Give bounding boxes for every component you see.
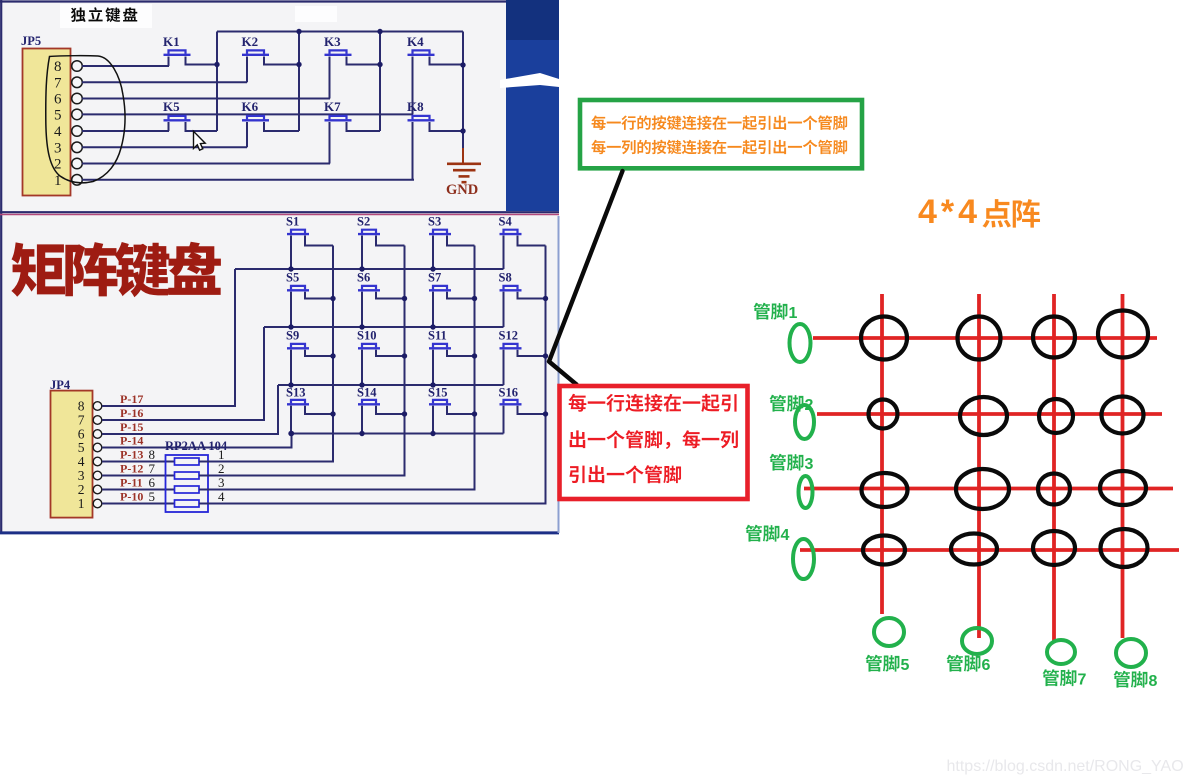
label 管脚8 <box>1114 671 1148 688</box>
LED dot row 2 col 4 <box>1102 397 1144 434</box>
svg-text:K6: K6 <box>242 99 259 114</box>
key K1 left leg wire <box>168 57 170 67</box>
svg-text:3: 3 <box>218 475 225 490</box>
vertical bus wire column 1 <box>216 32 218 132</box>
svg-text:1: 1 <box>78 496 85 511</box>
RP2AA resistor element 4 <box>175 500 200 507</box>
key S4 right leg wire <box>518 236 546 246</box>
separator line crimson between panels <box>0 214 559 216</box>
column bus wire 3 <box>474 246 476 490</box>
junction dot column 3 row 2 <box>472 296 477 301</box>
key K4 right leg wire <box>430 57 464 65</box>
key S16 left leg wire <box>503 406 505 434</box>
svg-text:P-17: P-17 <box>120 392 143 406</box>
red box text line 3 <box>569 465 681 483</box>
red box text line 1 <box>569 394 737 412</box>
svg-text:7: 7 <box>54 75 62 91</box>
wire P-15 <box>102 385 278 434</box>
LED dot row 3 col 1 <box>862 473 908 507</box>
schematic slide background top panel <box>0 0 559 216</box>
label 管脚6 <box>947 655 981 672</box>
svg-text:S5: S5 <box>286 271 299 285</box>
svg-text:6: 6 <box>982 657 991 674</box>
svg-text:P-12: P-12 <box>120 462 143 476</box>
LED dot row 2 col 2 <box>960 397 1007 435</box>
svg-text:8: 8 <box>1149 673 1158 690</box>
svg-text:5: 5 <box>78 440 85 455</box>
red annotation box <box>560 386 748 499</box>
junction dot column 1 row 3 <box>330 353 335 358</box>
key S14 right leg wire <box>376 406 405 414</box>
key S15 left leg wire <box>432 406 434 434</box>
LED dot row 1 col 3 <box>1033 317 1075 358</box>
column bus wire 4 <box>545 246 547 504</box>
LED dot row 4 col 2 <box>951 534 997 565</box>
pin ellipse 管脚1 <box>790 324 811 362</box>
svg-text:P-14: P-14 <box>120 434 143 448</box>
svg-text:S10: S10 <box>357 329 376 343</box>
pin circle 管脚8 <box>1116 639 1146 667</box>
LED dot row 1 col 4 <box>1098 311 1148 358</box>
svg-text:GND: GND <box>446 182 478 198</box>
svg-text:1: 1 <box>54 173 62 189</box>
svg-text:6: 6 <box>54 92 62 108</box>
wire P-17 <box>102 269 235 406</box>
matrix panel right border <box>558 216 560 533</box>
junction dot row bus 4 col 2 <box>359 431 364 436</box>
wire JP5 pin 8 row <box>82 65 169 67</box>
junction dot row bus 4 col 1 <box>288 431 293 436</box>
svg-text:S12: S12 <box>499 329 518 343</box>
RP2AA resistor element 3 <box>175 486 200 493</box>
JP5 pin 1 circle <box>72 175 83 186</box>
LED dot row 4 col 4 <box>1101 529 1148 567</box>
key S4 left leg wire <box>503 236 505 270</box>
junction dot column 4 row 4 <box>543 411 548 416</box>
junction dots row1 <box>214 62 219 67</box>
svg-text:4: 4 <box>54 124 62 140</box>
label 管脚1 <box>754 303 788 320</box>
svg-text:K7: K7 <box>324 99 341 114</box>
svg-text:6: 6 <box>149 475 156 490</box>
JP5 pin 8 circle <box>72 61 83 72</box>
svg-text:K1: K1 <box>163 34 180 49</box>
LED dot row 3 col 2 <box>956 469 1009 509</box>
panel left border <box>0 0 2 534</box>
LED dot row 4 col 3 <box>1033 531 1075 565</box>
key S7 left leg wire <box>432 292 434 327</box>
key S5 right leg wire <box>305 292 333 299</box>
title 独立键盘 <box>71 7 137 22</box>
svg-text:5: 5 <box>54 107 62 123</box>
svg-text:4: 4 <box>218 489 225 504</box>
key S1 left leg wire <box>290 236 292 270</box>
grid horizontal line 3 <box>804 487 1173 491</box>
column bus wire 1 <box>332 246 334 462</box>
row bus wire 4 <box>292 433 504 435</box>
white erase streak on blue block <box>500 73 559 88</box>
grid vertical line 1 <box>880 294 884 614</box>
svg-text:4: 4 <box>78 454 85 469</box>
grid vertical line 4 <box>1121 294 1125 638</box>
key K2 right leg wire <box>264 57 299 65</box>
vertical bus wire column 2 <box>298 32 300 132</box>
key S11 left leg wire <box>432 350 434 385</box>
junction dot row bus 2 col 1 <box>288 324 293 329</box>
key S9 right leg wire <box>305 350 333 356</box>
key K7 left leg wire <box>329 122 331 164</box>
junction dot row bus 4 col 3 <box>430 431 435 436</box>
svg-text:P-15: P-15 <box>120 420 143 434</box>
svg-text:K5: K5 <box>163 99 180 114</box>
wire P-16 <box>102 327 264 420</box>
JP5 pin 5 circle <box>72 109 83 120</box>
key S9 left leg wire <box>290 350 292 385</box>
wire P-13 to resistor pack <box>102 461 175 463</box>
key K3 right leg wire <box>347 57 381 65</box>
wire RP2AA pin 3 to column 3 <box>199 246 475 490</box>
key S15 right leg wire <box>447 406 475 414</box>
junction dot column 3 row 3 <box>472 353 477 358</box>
row bus wire 1 <box>235 268 504 270</box>
key K4 left leg wire <box>412 57 414 115</box>
key S3 right leg wire <box>447 236 475 246</box>
LED dot row 2 col 1 <box>869 400 898 429</box>
svg-text:S1: S1 <box>286 215 299 229</box>
svg-text:K2: K2 <box>242 34 259 49</box>
junction dot row bus 2 col 3 <box>430 324 435 329</box>
junction dot column 1 row 2 <box>330 296 335 301</box>
JP5 pin 7 circle <box>72 77 83 88</box>
JP4 pin 3 circle <box>93 471 102 480</box>
svg-text:P-10: P-10 <box>120 490 143 504</box>
wire P-14 <box>102 434 292 448</box>
key S6 left leg wire <box>361 292 363 327</box>
wire JP5 pin 2 row <box>82 163 330 165</box>
row bus wire 2 <box>264 326 504 328</box>
JP4 pin 2 circle <box>93 485 102 494</box>
wire P-12 to resistor pack <box>102 475 175 477</box>
wire JP5 pin 3 row <box>82 146 247 148</box>
row bus wire 3 <box>278 384 504 386</box>
key K2 left leg wire <box>246 57 248 83</box>
svg-text:8: 8 <box>78 399 85 414</box>
key K8 right leg wire <box>430 122 464 131</box>
key S8 right leg wire <box>518 292 546 299</box>
pin ellipse 管脚4 <box>793 539 814 579</box>
label 管脚7 <box>1043 669 1077 686</box>
junction dot row bus 1 col 3 <box>430 266 435 271</box>
JP5 pin 4 circle <box>72 126 83 137</box>
key K6 left leg wire <box>246 122 248 147</box>
JP4 pin 7 circle <box>93 416 102 425</box>
svg-text:S6: S6 <box>357 271 370 285</box>
svg-text:4: 4 <box>781 527 790 544</box>
key S3 left leg wire <box>432 236 434 270</box>
svg-text:P-16: P-16 <box>120 406 143 420</box>
key S1 right leg wire <box>305 236 333 246</box>
JP4 pin 4 circle <box>93 457 102 466</box>
key S14 left leg wire <box>361 406 363 434</box>
svg-text:K8: K8 <box>407 99 424 114</box>
connector JP5 body <box>23 49 71 196</box>
junction dot row bus 2 col 2 <box>359 324 364 329</box>
JP5 pin 2 circle <box>72 158 83 169</box>
JP4 pin 5 circle <box>93 443 102 452</box>
label 管脚5 <box>866 655 900 672</box>
top bus wire to GND column <box>217 31 463 33</box>
label 管脚3 <box>770 454 804 471</box>
key S11 right leg wire <box>447 350 475 356</box>
key S5 left leg wire <box>290 292 292 327</box>
svg-text:4*4: 4*4 <box>918 193 981 231</box>
wire P-11 to resistor pack <box>102 489 175 491</box>
pin ellipse 管脚2 <box>795 405 814 439</box>
white highlight blobs behind title <box>60 4 152 28</box>
wire P-10 to resistor pack <box>102 503 175 505</box>
svg-text:3: 3 <box>805 456 814 473</box>
junction dot column 4 row 2 <box>543 296 548 301</box>
column bus wire 2 <box>404 246 406 476</box>
key S12 left leg wire <box>503 350 505 385</box>
wire JP5 pin 7 row <box>82 81 247 83</box>
junction dot row bus 1 col 2 <box>359 266 364 271</box>
grid horizontal line 1 <box>813 336 1157 340</box>
svg-text:2: 2 <box>218 461 225 476</box>
key S8 left leg wire <box>503 292 505 327</box>
svg-text:2: 2 <box>805 397 814 414</box>
wire RP2AA pin 2 to column 2 <box>199 246 405 476</box>
dark blue video corner block <box>506 0 559 211</box>
pin circle 管脚5 <box>874 618 904 646</box>
wire JP5 pin 6 row <box>82 98 330 100</box>
RP2AA resistor element 1 <box>175 458 200 465</box>
green box text line 2 <box>591 140 847 155</box>
svg-text:7: 7 <box>149 461 156 476</box>
svg-text:2: 2 <box>78 482 85 497</box>
wire JP5 pin 5 row <box>82 113 413 115</box>
wire JP5 pin 4 row <box>82 130 169 132</box>
svg-text:3: 3 <box>78 468 85 483</box>
svg-text:S8: S8 <box>499 271 512 285</box>
svg-text:P-13: P-13 <box>120 448 143 462</box>
LED dot row 1 col 2 <box>958 317 1001 360</box>
svg-text:S14: S14 <box>357 386 377 400</box>
key K8 left leg wire <box>412 122 414 180</box>
JP4 pin 8 circle <box>93 402 102 411</box>
svg-text:5: 5 <box>901 657 910 674</box>
key K5 left leg wire <box>168 122 170 131</box>
LED dot row 4 col 1 <box>863 536 905 565</box>
JP4 pin 6 circle <box>93 430 102 439</box>
pin circle 管脚6 <box>962 628 992 654</box>
junction dot row bus 3 col 1 <box>288 382 293 387</box>
svg-text:8: 8 <box>149 447 156 462</box>
svg-text:K3: K3 <box>324 34 341 49</box>
svg-text:https://blog.csdn.net/RONG_YAO: https://blog.csdn.net/RONG_YAO <box>947 758 1184 775</box>
pin ellipse 管脚3 <box>799 476 813 508</box>
label 管脚2 <box>770 395 804 412</box>
key S7 right leg wire <box>447 292 475 299</box>
svg-text:8: 8 <box>54 59 62 75</box>
key S10 right leg wire <box>376 350 405 356</box>
key S10 left leg wire <box>361 350 363 385</box>
JP5 pin 6 circle <box>72 93 83 104</box>
svg-text:S7: S7 <box>428 271 441 285</box>
grid horizontal line 2 <box>817 412 1162 416</box>
junction dot P-14 riser <box>289 431 294 436</box>
black pointer line <box>549 171 623 385</box>
junction dot row bus 3 col 3 <box>430 382 435 387</box>
JP5 pin 3 circle <box>72 142 83 153</box>
LED dot row 3 col 3 <box>1038 474 1070 505</box>
junction dot column 2 row 4 <box>402 411 407 416</box>
key S13 right leg wire <box>305 406 333 414</box>
grid horizontal line 4 <box>800 548 1179 552</box>
key K1 right leg wire <box>186 57 218 65</box>
red box text line 2 <box>570 430 738 449</box>
panel top border <box>0 0 506 2</box>
svg-text:1: 1 <box>789 305 798 322</box>
RP2AA resistor element 2 <box>175 472 200 479</box>
key K5 right leg wire <box>186 122 218 131</box>
svg-text:1: 1 <box>218 447 225 462</box>
svg-text:K4: K4 <box>407 34 424 49</box>
key S6 right leg wire <box>376 292 405 299</box>
svg-text:S9: S9 <box>286 329 299 343</box>
key K3 left leg wire <box>329 57 331 99</box>
key K6 right leg wire <box>264 122 299 131</box>
matrix panel bottom border <box>0 531 559 534</box>
grid vertical line 3 <box>1052 294 1056 642</box>
LED dot row 2 col 3 <box>1039 399 1073 433</box>
junction dots top bus <box>296 29 301 34</box>
svg-text:S16: S16 <box>499 386 518 400</box>
green box text line 1 <box>591 115 847 130</box>
wire JP5 pin 1 row <box>82 179 414 181</box>
junction dot column 4 row 3 <box>543 353 548 358</box>
grid vertical line 2 <box>977 294 981 638</box>
big title 矩阵键盘 <box>11 242 221 297</box>
svg-text:3: 3 <box>54 140 62 156</box>
junction dot GND column row2 <box>460 128 465 133</box>
junction dot column 2 row 3 <box>402 353 407 358</box>
matrix keyboard panel background <box>0 216 559 534</box>
connector JP4 body <box>51 391 93 518</box>
svg-text:S3: S3 <box>428 215 441 229</box>
key K7 right leg wire <box>347 122 381 131</box>
green annotation box <box>580 100 862 168</box>
LED dot row 3 col 4 <box>1100 471 1146 505</box>
svg-text:JP5: JP5 <box>21 34 41 48</box>
key S12 right leg wire <box>518 350 546 356</box>
junction dot column 2 row 2 <box>402 296 407 301</box>
label 管脚4 <box>746 525 780 542</box>
mouse cursor <box>194 131 206 150</box>
wire RP2AA pin 1 to column 1 <box>199 246 333 462</box>
vertical GND bus wire <box>462 32 464 151</box>
key S13 left leg wire <box>290 406 292 434</box>
svg-text:S4: S4 <box>499 215 513 229</box>
key S2 left leg wire <box>361 236 363 270</box>
separator line navy between panels <box>0 211 559 213</box>
hand-drawn ellipse around JP5 pins <box>46 56 125 183</box>
LED dot row 1 col 1 <box>861 317 907 360</box>
svg-text:S13: S13 <box>286 386 305 400</box>
svg-text:S2: S2 <box>357 215 370 229</box>
vertical bus wire column 3 <box>379 32 381 132</box>
junction dot column 3 row 4 <box>472 411 477 416</box>
junction dot column 1 row 4 <box>330 411 335 416</box>
svg-text:P-11: P-11 <box>120 476 143 490</box>
resistor pack RP2AA body <box>166 455 209 512</box>
svg-text:S15: S15 <box>428 386 447 400</box>
ground symbol GND <box>462 148 464 164</box>
junction dot row bus 1 col 1 <box>288 266 293 271</box>
JP4 pin 1 circle <box>93 499 102 508</box>
key S2 right leg wire <box>376 236 405 246</box>
svg-text:7: 7 <box>1078 672 1087 689</box>
svg-text:5: 5 <box>149 489 156 504</box>
svg-text:7: 7 <box>78 413 85 428</box>
pin circle 管脚7 <box>1047 640 1075 664</box>
svg-text:S11: S11 <box>428 329 447 343</box>
junction dot row bus 3 col 2 <box>359 382 364 387</box>
key S16 right leg wire <box>518 406 546 414</box>
wire RP2AA pin 4 to column 4 <box>199 246 546 504</box>
